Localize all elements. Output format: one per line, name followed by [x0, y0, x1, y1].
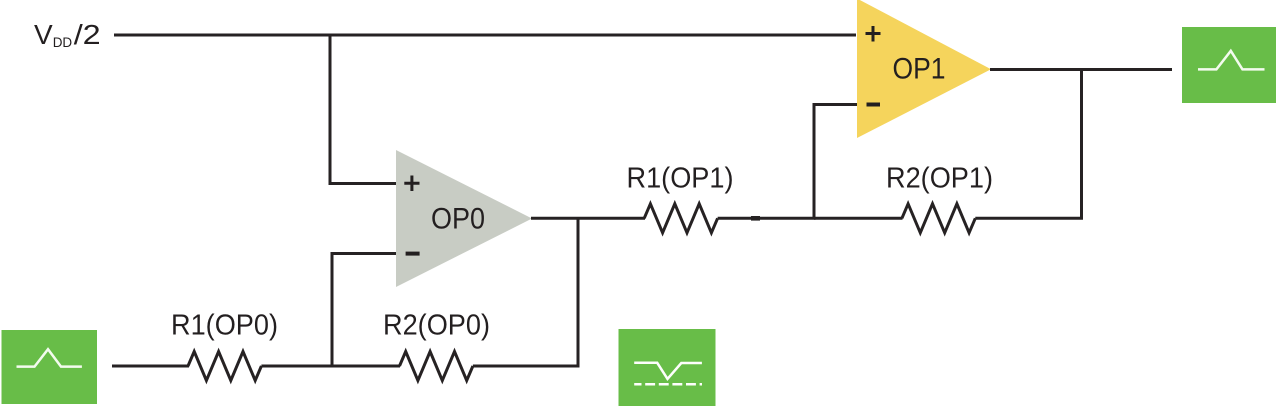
- wire OP0 output feedback drop: [577, 218, 580, 367]
- wire R2(OP0) to feedback node: [473, 365, 580, 368]
- wire OP0 noninverting branch: [330, 35, 397, 184]
- svg-text:R1(OP1): R1(OP1): [627, 162, 734, 194]
- wire OP1 output: [990, 68, 1172, 71]
- wire OP0 output: [531, 217, 645, 220]
- resistor R1(OP0): [188, 352, 261, 381]
- wire R1(OP1) to OP1 inverting node: [718, 217, 816, 220]
- wire R1(OP0) to junction: [261, 365, 400, 368]
- op-amp OP0: [396, 150, 532, 287]
- wire joint mark: [751, 216, 760, 221]
- op-amp OP1: [857, 0, 991, 138]
- resistor R2(OP0): [400, 352, 473, 381]
- wire node to R2(OP1): [814, 217, 903, 220]
- wire VDD/2 rail: [114, 34, 856, 37]
- svg-text:OP0: OP0: [431, 202, 485, 235]
- output signal icon (restored pulse): [1182, 27, 1276, 103]
- resistor R1(OP1): [644, 204, 717, 233]
- svg-text:R2(OP1): R2(OP1): [886, 162, 993, 194]
- wire input to R1(OP0): [112, 365, 189, 368]
- OP0 output signal icon (clipped negative pulse): [619, 329, 716, 406]
- svg-text:VDD/2: VDD/2: [34, 19, 101, 50]
- wire R2(OP1) to output riser: [975, 217, 1083, 220]
- pin + OP1: [866, 26, 881, 42]
- input signal icon (triangle pulse): [2, 330, 98, 404]
- pin + OP0: [404, 176, 419, 192]
- svg-text:OP1: OP1: [893, 53, 946, 86]
- svg-text:R1(OP0): R1(OP0): [171, 309, 278, 341]
- svg-text:R2(OP0): R2(OP0): [383, 309, 490, 341]
- wire OP1 inverting input: [814, 105, 857, 219]
- resistor R2(OP1): [902, 204, 975, 233]
- wire OP0 inverting input: [332, 254, 397, 367]
- pin - OP1: [867, 103, 881, 107]
- wire output feedback riser: [1080, 70, 1083, 219]
- pin - OP0: [406, 252, 420, 256]
